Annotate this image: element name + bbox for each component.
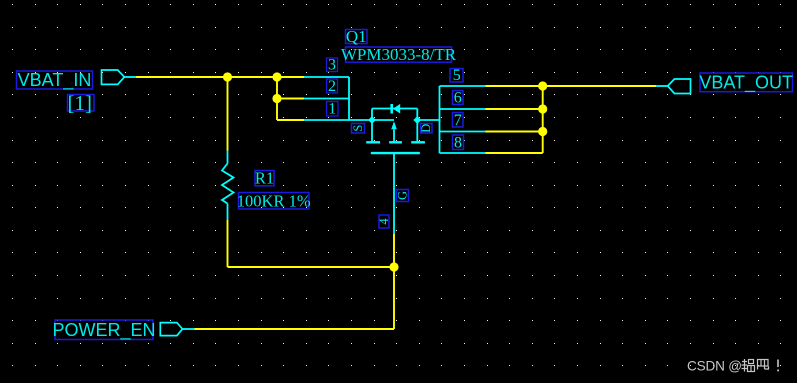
- wire POWER_EN stub: [182, 328, 195, 330]
- Q1 pin 5: [440, 85, 486, 87]
- wire pin6: [486, 108, 543, 110]
- S junction diamond: [368, 116, 376, 124]
- junction B: [272, 72, 281, 81]
- gate bar: [371, 152, 420, 154]
- S vertical: [371, 109, 373, 143]
- label [1]: [68, 91, 95, 115]
- wire to pin2: [277, 98, 304, 100]
- wire VBAT_OUT stub: [656, 85, 668, 87]
- svg-text:S: S: [351, 125, 365, 132]
- svg-text:1: 1: [328, 101, 336, 118]
- gate lead pin 4: [393, 153, 395, 234]
- port POWER_EN: [160, 323, 182, 336]
- label VBAT_OUT: [699, 73, 793, 94]
- label S: [351, 124, 365, 134]
- D lead: [417, 119, 439, 121]
- wire pin5 to out: [486, 85, 657, 87]
- pin number 2: [327, 78, 338, 95]
- svg-text:CSDN @: CSDN @: [687, 359, 742, 374]
- junction D5: [538, 81, 547, 90]
- Q1 pin 2: [304, 98, 349, 100]
- svg-text:2: 2: [328, 78, 336, 95]
- svg-text:7: 7: [454, 112, 462, 129]
- wire VBAT_IN horizontal: [136, 76, 304, 78]
- resistor R1: [222, 151, 234, 221]
- wire VBAT_IN stub: [124, 76, 136, 78]
- svg-text:[1]: [1]: [68, 91, 93, 115]
- Q1 left bus: [348, 77, 350, 120]
- wire down to R1: [227, 77, 229, 151]
- Q1 right bus: [439, 86, 441, 153]
- channel bar left: [366, 141, 380, 143]
- label G: [396, 190, 410, 202]
- pin number 3: [327, 57, 338, 74]
- D vertical: [416, 109, 418, 143]
- substrate arrow: [391, 121, 397, 129]
- wire pin7: [486, 131, 543, 133]
- svg-text:VBAT_IN: VBAT_IN: [18, 70, 92, 91]
- svg-text:R1: R1: [255, 169, 274, 188]
- channel bar middle: [389, 141, 402, 143]
- wire R1 bottom: [227, 220, 229, 267]
- watermark CSDN: [687, 359, 779, 374]
- junction C: [272, 94, 281, 103]
- channel bar right: [411, 141, 425, 143]
- pin number 1: [327, 101, 339, 118]
- pin number 6: [453, 90, 464, 107]
- label POWER_EN: [52, 320, 155, 341]
- label R1: [255, 169, 274, 188]
- pin number 4: [377, 215, 391, 228]
- wire gate: [393, 234, 395, 267]
- wire right vertical: [542, 86, 544, 153]
- svg-text:8: 8: [454, 135, 462, 152]
- svg-text:VBAT_OUT: VBAT_OUT: [699, 73, 793, 94]
- port VBAT_IN: [102, 70, 125, 84]
- label D: [419, 124, 433, 134]
- wire down: [393, 267, 395, 329]
- body diode cathode bar: [390, 104, 393, 114]
- Q1 pin 7: [440, 131, 486, 133]
- Q1 pin 6: [440, 108, 486, 110]
- svg-text:100KR 1%: 100KR 1%: [237, 192, 311, 211]
- wire to pin1: [277, 119, 304, 121]
- pin number 5: [450, 67, 463, 84]
- pin number 8: [453, 135, 464, 152]
- Q1 pin 8: [440, 152, 486, 154]
- label 100KR 1%: [237, 192, 311, 211]
- mosfet Q1 body: top wire: [372, 108, 417, 110]
- svg-text:3: 3: [328, 57, 336, 74]
- junction G: [389, 262, 398, 271]
- junction A: [223, 72, 232, 81]
- wire bottom horizontal: [228, 266, 395, 268]
- D junction diamond: [413, 116, 421, 124]
- svg-text:WPM3033-8/TR: WPM3033-8/TR: [341, 45, 457, 64]
- wire B down: [276, 77, 278, 120]
- body diode triangle: [393, 104, 400, 114]
- substrate line: [393, 129, 395, 142]
- Q1 pin 3: [304, 76, 349, 78]
- wire pin8: [486, 152, 543, 154]
- Q1 pin 1 and S lead: [304, 119, 394, 121]
- svg-text:Q1: Q1: [346, 27, 367, 46]
- label WPM3033-8/TR: [341, 45, 457, 64]
- svg-text:G: G: [396, 191, 410, 200]
- label VBAT_IN: [17, 70, 93, 91]
- junction D7: [538, 127, 547, 136]
- svg-text:5: 5: [453, 67, 461, 84]
- wire POWER_EN horizontal: [195, 328, 395, 330]
- svg-text:POWER_EN: POWER_EN: [52, 320, 155, 341]
- port VBAT_OUT: [668, 79, 691, 94]
- svg-text:6: 6: [454, 90, 462, 107]
- svg-text:D: D: [419, 124, 433, 133]
- svg-text:4: 4: [377, 218, 391, 225]
- label Q1: [346, 27, 368, 46]
- junction D6: [538, 104, 547, 113]
- pin number 7: [453, 112, 464, 129]
